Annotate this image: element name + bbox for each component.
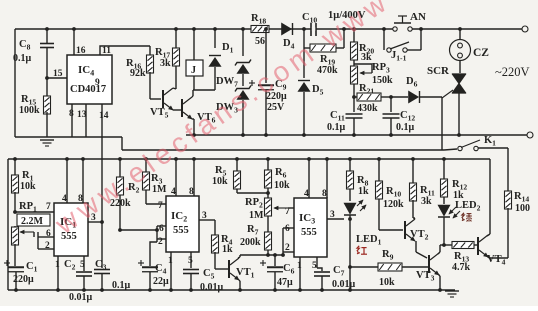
svg-text:10k: 10k bbox=[274, 180, 290, 191]
svg-text:SCR: SCR bbox=[427, 65, 450, 77]
svg-text:555: 555 bbox=[173, 225, 189, 236]
svg-text:4: 4 bbox=[171, 187, 176, 197]
svg-text:7: 7 bbox=[46, 202, 51, 212]
svg-text:6: 6 bbox=[46, 229, 51, 239]
svg-text:1k: 1k bbox=[358, 186, 369, 197]
svg-text:5: 5 bbox=[188, 256, 193, 266]
svg-text:470k: 470k bbox=[317, 65, 338, 76]
svg-text:25V: 25V bbox=[267, 102, 285, 113]
svg-text:4: 4 bbox=[304, 189, 309, 199]
svg-text:0.1μ: 0.1μ bbox=[327, 122, 346, 133]
svg-text:14: 14 bbox=[99, 111, 109, 121]
svg-text:2: 2 bbox=[158, 237, 163, 247]
svg-text:8: 8 bbox=[322, 189, 327, 199]
svg-text:1M: 1M bbox=[152, 184, 167, 195]
svg-text:3: 3 bbox=[330, 210, 335, 220]
svg-text:16: 16 bbox=[76, 46, 86, 56]
svg-text:8: 8 bbox=[189, 187, 194, 197]
svg-text:1M: 1M bbox=[249, 210, 264, 221]
svg-text:~220V: ~220V bbox=[495, 65, 530, 79]
svg-text:100k: 100k bbox=[19, 105, 40, 116]
svg-text:0.1μ: 0.1μ bbox=[13, 53, 32, 64]
svg-text:3: 3 bbox=[202, 211, 207, 221]
svg-text:2: 2 bbox=[285, 243, 290, 253]
svg-text:1: 1 bbox=[168, 256, 173, 266]
svg-text:1: 1 bbox=[297, 261, 302, 271]
svg-text:2.2M: 2.2M bbox=[21, 216, 44, 227]
svg-text:430k: 430k bbox=[357, 103, 378, 114]
svg-text:7: 7 bbox=[285, 207, 290, 217]
svg-text:3k: 3k bbox=[421, 196, 432, 207]
svg-text:22μ: 22μ bbox=[153, 276, 169, 287]
svg-text:5: 5 bbox=[80, 260, 85, 270]
svg-text:CD4017: CD4017 bbox=[70, 84, 106, 95]
svg-text:1k: 1k bbox=[222, 244, 233, 255]
svg-text:47μ: 47μ bbox=[277, 277, 293, 288]
svg-text:8: 8 bbox=[69, 109, 74, 119]
svg-text:0.01μ: 0.01μ bbox=[332, 279, 356, 290]
svg-text:56: 56 bbox=[255, 36, 265, 47]
svg-text:1: 1 bbox=[55, 260, 60, 270]
svg-text:10k: 10k bbox=[379, 277, 395, 288]
svg-text:0.1μ: 0.1μ bbox=[396, 122, 415, 133]
svg-text:15: 15 bbox=[53, 69, 63, 79]
svg-text:2: 2 bbox=[45, 241, 50, 251]
svg-text:7: 7 bbox=[158, 201, 163, 211]
svg-text:4.7k: 4.7k bbox=[452, 262, 471, 273]
svg-text:11: 11 bbox=[102, 46, 111, 56]
svg-text:J: J bbox=[191, 65, 196, 76]
svg-text:0.01μ: 0.01μ bbox=[69, 292, 93, 303]
svg-text:3k: 3k bbox=[160, 58, 171, 69]
svg-text:5: 5 bbox=[312, 261, 317, 271]
svg-text:0.01μ: 0.01μ bbox=[200, 282, 224, 293]
svg-text:10k: 10k bbox=[20, 181, 36, 192]
svg-text:92k: 92k bbox=[130, 68, 146, 79]
svg-text:6: 6 bbox=[285, 224, 290, 234]
svg-text:200k: 200k bbox=[240, 237, 261, 248]
svg-text:100: 100 bbox=[515, 203, 530, 214]
svg-text:AN: AN bbox=[410, 11, 426, 23]
svg-text:0.1μ: 0.1μ bbox=[112, 280, 131, 291]
svg-text:3k: 3k bbox=[361, 52, 372, 63]
svg-text:9: 9 bbox=[95, 78, 100, 88]
svg-text:150k: 150k bbox=[372, 75, 393, 86]
svg-text:555: 555 bbox=[301, 227, 317, 238]
svg-text:13: 13 bbox=[77, 110, 87, 120]
svg-text:120k: 120k bbox=[383, 199, 404, 210]
svg-text:6: 6 bbox=[159, 224, 164, 234]
svg-text:220μ: 220μ bbox=[13, 274, 34, 285]
svg-text:10k: 10k bbox=[212, 176, 228, 187]
svg-text:CZ: CZ bbox=[473, 47, 489, 59]
